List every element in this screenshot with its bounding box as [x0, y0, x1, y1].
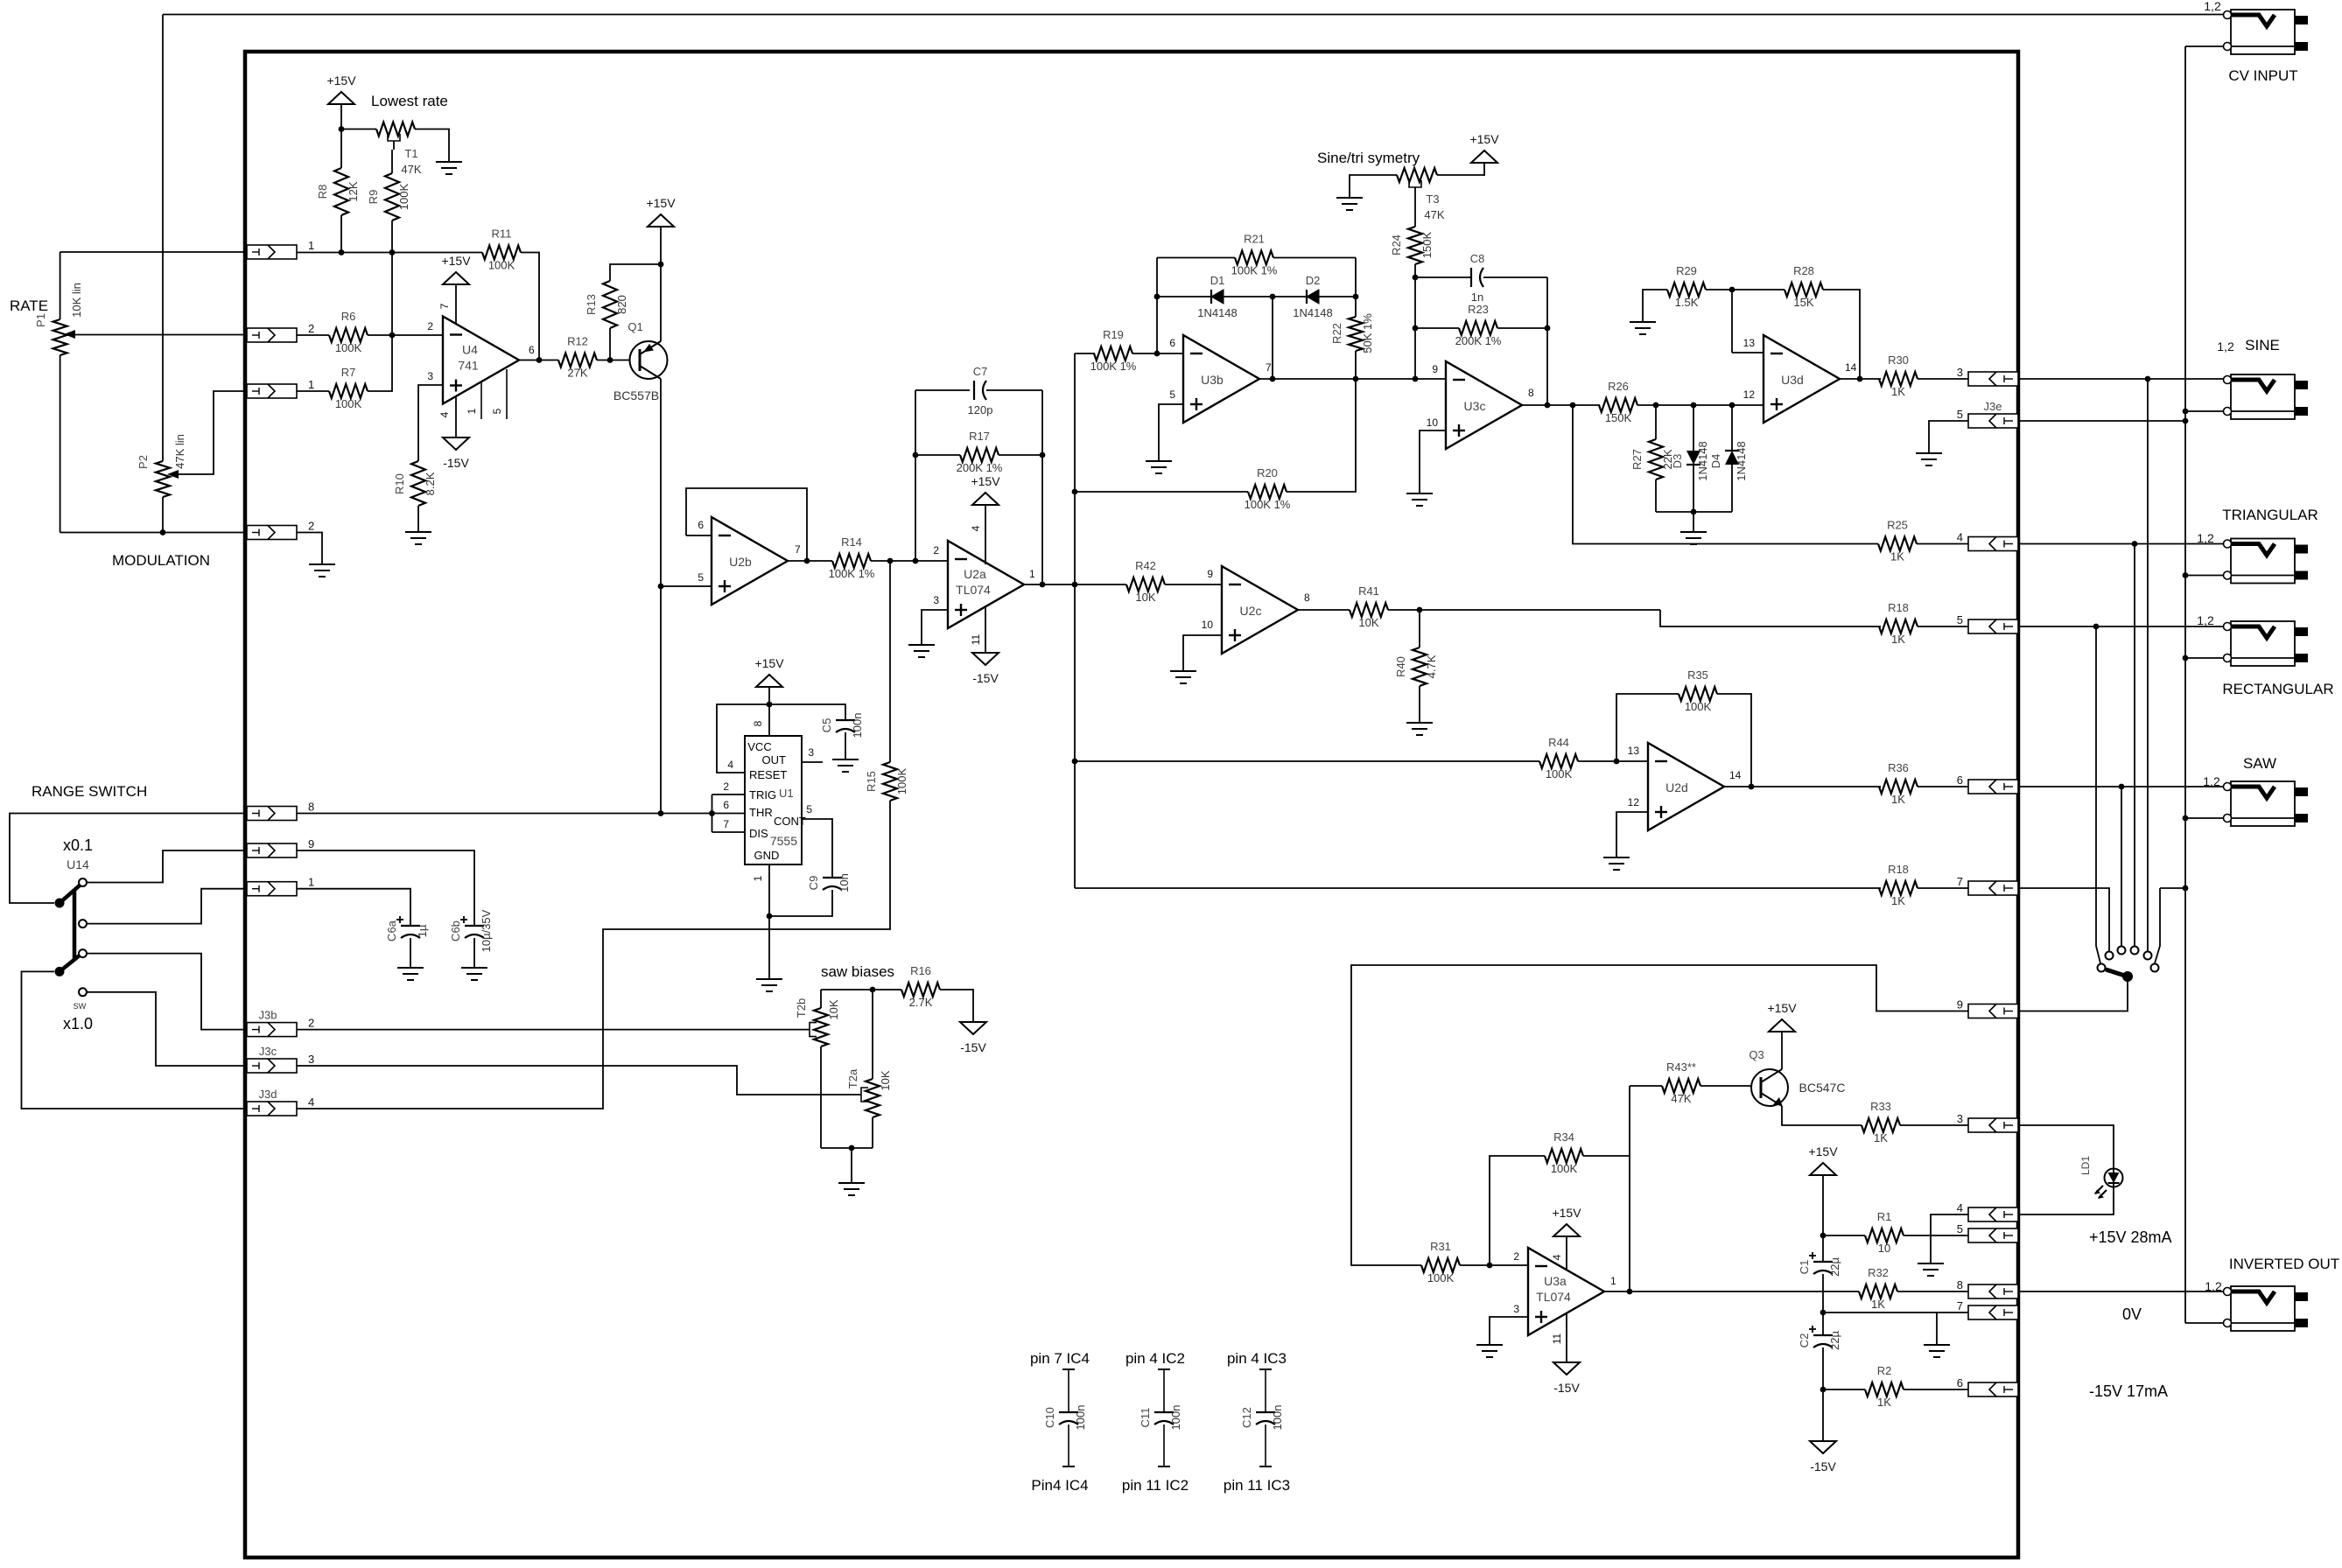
wire R33 to connector 3 [1900, 1124, 1968, 1126]
svg-text:sw: sw [74, 999, 87, 1011]
wire D3 top [1693, 405, 1694, 451]
svg-text:R32: R32 [1868, 1266, 1889, 1279]
junction R17 right [1040, 452, 1046, 458]
wire R17 left stub [915, 454, 960, 456]
wire R24 bottom rail [1414, 264, 1416, 379]
wire R35 right rail [1717, 694, 1751, 787]
wire connector1 row to R11 node [297, 252, 482, 254]
svg-text:100K 1%: 100K 1% [1090, 360, 1137, 373]
svg-text:14: 14 [1729, 769, 1742, 781]
junction T2a top [870, 987, 876, 993]
switch U14 pole2 contact 1 [79, 949, 87, 957]
capacitor C12 100n [1240, 1369, 1284, 1466]
wire U2b pin5 [661, 585, 712, 587]
wire sine out to jack tip [2018, 378, 2223, 380]
svg-text:7: 7 [1957, 1299, 1963, 1312]
wire P2 bottom to modulation rail [162, 497, 164, 533]
svg-text:4: 4 [970, 525, 982, 531]
ground at saw biases [838, 1183, 865, 1195]
ground at connector 4 [1918, 1263, 1944, 1276]
svg-text:10K: 10K [879, 1070, 892, 1090]
wire SINE sleeve [2185, 410, 2224, 412]
resistor R1 10 [1865, 1210, 1904, 1255]
svg-text:R21: R21 [1244, 233, 1265, 246]
wire U3b pin5 to ground [1159, 404, 1183, 461]
wire P1 wiper to connector 2 [74, 334, 247, 336]
svg-text:pin 4 IC2: pin 4 IC2 [1125, 1350, 1185, 1367]
svg-text:3: 3 [808, 746, 814, 759]
wire P1 bottom to modulation rail [60, 355, 61, 533]
junction R14/R15 node [887, 558, 894, 564]
wire U2a pin11 to -15V [985, 606, 986, 653]
wire R43 left [1630, 1085, 1662, 1087]
wire U2a output row [1024, 584, 1126, 585]
wire R16 right to -15V [940, 990, 973, 1022]
svg-text:R11: R11 [492, 227, 512, 241]
resistor R25 1K [1878, 519, 1917, 563]
wire VCC pin8 [768, 704, 770, 736]
junction R27 top [1653, 402, 1659, 409]
svg-text:CV INPUT: CV INPUT [2228, 67, 2297, 84]
T2a tap bracket [861, 1088, 868, 1102]
wire modulation connector to ground [297, 533, 322, 565]
op-amp U3d [1764, 335, 1840, 423]
wire Q1 collector rail down to THR [660, 379, 662, 814]
svg-text:2: 2 [308, 520, 314, 533]
wire D3 bottom [1693, 465, 1694, 512]
wire RECT sleeve [2185, 657, 2224, 659]
wire pin7 out to switch [2018, 888, 2109, 951]
svg-text:6: 6 [1169, 337, 1175, 349]
junction sine to switch [2145, 376, 2151, 382]
svg-text:9: 9 [308, 837, 314, 850]
svg-text:100n: 100n [1169, 1405, 1182, 1431]
svg-text:T2a: T2a [846, 1068, 859, 1088]
resistor R27 22K [1630, 439, 1674, 479]
junction R35 left rail on pin13 [1614, 759, 1620, 765]
wire R32 to connector 8 [1897, 1291, 1968, 1292]
wire R12 to Q1 base [597, 360, 630, 361]
wire +15V to T1/R8 node [340, 104, 342, 129]
junction R34 rail on pin2 [1487, 1263, 1493, 1269]
svg-text:4: 4 [1957, 1201, 1963, 1214]
svg-text:D4: D4 [1709, 454, 1722, 469]
junction D4 top [1729, 402, 1735, 409]
resistor R29 1.5K [1667, 264, 1706, 309]
svg-text:SINE: SINE [2245, 337, 2280, 353]
svg-text:4: 4 [1551, 1254, 1563, 1260]
svg-text:6: 6 [698, 519, 704, 531]
wire LED to connector4 [2018, 1186, 2114, 1214]
wire connector4 to ground [1931, 1214, 1968, 1263]
wire R34 right rail [1583, 1086, 1630, 1156]
connector J3b pin 2 [247, 1009, 314, 1037]
svg-text:U3d: U3d [1781, 373, 1804, 387]
wire J3b to pole2 contact1 [87, 954, 247, 1030]
svg-text:2: 2 [308, 322, 314, 335]
svg-text:R15: R15 [865, 771, 878, 792]
power arrow -15V (U4 pin4) [443, 437, 469, 470]
resistor R41 10K [1350, 584, 1388, 629]
junction +15V rail C1 [1820, 1233, 1827, 1239]
wire U3d output [1840, 378, 1881, 380]
svg-text:R9: R9 [367, 190, 380, 205]
connector pin 2 (rate pot wiper) [247, 322, 314, 342]
wire CV sleeve [2185, 45, 2224, 47]
svg-text:1µ: 1µ [416, 924, 429, 937]
diode D1 1N4148 [1197, 274, 1238, 319]
resistor R14 100K 1% [829, 535, 875, 580]
connector pin 3 (LED drive) [1957, 1112, 2018, 1132]
resistor R24 150K [1390, 227, 1434, 264]
wire R40 top [1419, 610, 1420, 647]
svg-text:+15V: +15V [326, 73, 356, 87]
resistor R28 15K [1785, 264, 1823, 309]
svg-text:2: 2 [427, 320, 433, 332]
power arrow +15V (R8/T1) [326, 73, 356, 104]
wire modulation bottom rail [60, 532, 247, 534]
svg-text:J3c: J3c [259, 1045, 277, 1058]
svg-text:BC547C: BC547C [1799, 1081, 1846, 1095]
wire inverted out to jack tip [2018, 1291, 2223, 1292]
connector pin 1 (modulation depth) [247, 378, 314, 398]
wire x1.0 contact drop [2155, 888, 2160, 963]
svg-text:12: 12 [1743, 388, 1756, 401]
wire GND pin1 down [768, 864, 770, 979]
svg-text:R22: R22 [1330, 323, 1343, 344]
wire C7 top right [986, 389, 1042, 391]
wire T1 right to ground [415, 129, 449, 163]
svg-text:+15V 28mA: +15V 28mA [2089, 1228, 2172, 1246]
svg-text:1: 1 [308, 876, 314, 889]
svg-text:Q3: Q3 [1749, 1048, 1764, 1061]
wire triangle rail to R18 pin7 [1075, 887, 1881, 889]
wire connector8 to pole1 common [10, 814, 247, 904]
svg-text:1K: 1K [1890, 550, 1904, 563]
junction rect to switch [2093, 624, 2100, 630]
wire R6 to summing rail [368, 334, 392, 336]
resistor R9 100K [367, 173, 410, 220]
svg-text:J3d: J3d [259, 1088, 277, 1101]
svg-text:+15V: +15V [646, 196, 676, 210]
wire R43 to Q3 base [1700, 1085, 1752, 1087]
resistor R33 1K [1862, 1100, 1900, 1144]
wire connector3 to R7 [297, 390, 329, 392]
wire Q3 collector to +15V [1781, 1032, 1783, 1069]
wire connector9 to pole1 contact1 [87, 850, 247, 883]
op-amp U3a TL074 [1528, 1248, 1604, 1335]
ground at U3b pin5 [1146, 461, 1172, 473]
svg-text:+15V: +15V [1767, 1001, 1797, 1015]
ground at C6a [397, 968, 424, 980]
junction R29/R28/pin13 [1729, 287, 1735, 293]
resistor R2 1K [1865, 1364, 1904, 1409]
connector pin 1 (rate CV input) [247, 239, 314, 259]
wire C7 right rail [1041, 390, 1043, 584]
jack CV INPUT [2224, 10, 2309, 54]
svg-text:U3a: U3a [1544, 1274, 1567, 1288]
svg-text:U2a: U2a [964, 567, 986, 581]
diode D2 1N4148 [1293, 274, 1333, 319]
connector pin 2 (modulation return) [247, 520, 314, 540]
op-amp U2a TL074 [948, 541, 1024, 628]
svg-text:100K: 100K [895, 767, 908, 794]
wire T1 tap to R9 [393, 141, 395, 150]
wire U4 pin3 to R10 [418, 385, 443, 461]
wire R21 left [1157, 257, 1235, 259]
svg-text:pin 7 IC4: pin 7 IC4 [1030, 1350, 1090, 1367]
svg-text:SAW: SAW [2243, 755, 2276, 772]
svg-text:TL074: TL074 [956, 583, 991, 597]
svg-text:RECTANGULAR: RECTANGULAR [2222, 681, 2333, 697]
svg-text:OUT: OUT [762, 753, 787, 766]
svg-text:1K: 1K [1874, 1131, 1888, 1144]
svg-text:1,2: 1,2 [2197, 613, 2214, 627]
trimmer T2a 10K [846, 1068, 892, 1117]
svg-text:100K 1%: 100K 1% [829, 567, 875, 580]
svg-text:R25: R25 [1887, 519, 1908, 532]
svg-text:J3e: J3e [1984, 400, 2002, 413]
junction R35 on U2d output [1749, 784, 1755, 790]
svg-text:1: 1 [752, 875, 764, 881]
svg-text:+15V: +15V [1808, 1144, 1838, 1158]
svg-text:GND: GND [754, 849, 780, 862]
svg-text:C2: C2 [1798, 1333, 1811, 1348]
svg-text:R44: R44 [1548, 736, 1569, 749]
wire R18 to connector 5 [1918, 626, 1968, 627]
svg-text:C6b: C6b [449, 920, 462, 941]
wire R2 left [1823, 1389, 1865, 1390]
svg-text:R13: R13 [585, 294, 598, 315]
resistor R20 100K 1% [1245, 466, 1291, 511]
resistor R7 100K [329, 366, 368, 410]
svg-text:+15V: +15V [754, 656, 784, 670]
svg-text:P2: P2 [137, 455, 150, 469]
svg-text:741: 741 [458, 359, 479, 373]
svg-text:6: 6 [1957, 1376, 1963, 1389]
wire R26 to U3d pin12 [1637, 404, 1764, 406]
ground at R29 [1630, 322, 1656, 334]
svg-text:pin 11 IC2: pin 11 IC2 [1122, 1477, 1189, 1494]
svg-text:R10: R10 [393, 473, 406, 494]
svg-text:100K 1%: 100K 1% [1231, 264, 1278, 277]
wire R27 top [1655, 405, 1657, 439]
capacitor C11 100n [1139, 1369, 1182, 1466]
svg-text:100n: 100n [1074, 1405, 1087, 1431]
resistor R30 1K [1879, 353, 1918, 398]
trimmer T3 47K [1397, 168, 1437, 182]
power arrow +15V (U4 pin7) [441, 254, 471, 284]
junction R23 left [1413, 325, 1419, 332]
resistor R35 100K (U2d feedback) [1679, 668, 1717, 713]
wire R23 right stub [1497, 327, 1547, 329]
svg-text:1K: 1K [1891, 633, 1905, 646]
wire R25 to connector 4 [1917, 543, 1968, 545]
power arrow +15V (U3a pin4) [1552, 1206, 1581, 1236]
wire SAW sleeve [2185, 817, 2224, 819]
svg-text:-15V: -15V [1810, 1459, 1836, 1473]
resistor R44 100K [1539, 736, 1578, 780]
svg-text:1: 1 [1029, 568, 1035, 580]
svg-text:-15V: -15V [972, 671, 999, 685]
svg-text:R29: R29 [1676, 264, 1697, 277]
svg-text:10K: 10K [1135, 591, 1155, 604]
svg-text:47K: 47K [401, 163, 421, 176]
switch U14 pole1 common [55, 899, 65, 908]
wire R28 right to output [1823, 290, 1860, 379]
wire C9 to GND row [769, 890, 832, 916]
wire R10 to ground [417, 506, 419, 532]
svg-text:R34: R34 [1553, 1130, 1574, 1144]
wire R15 top from R14 node [889, 561, 891, 762]
wire D2 right [1319, 296, 1356, 297]
wire RESET branch [717, 704, 769, 773]
wire clamp to ground [1693, 512, 1694, 532]
svg-text:+15V: +15V [971, 474, 1000, 488]
wire R36 to connector 6 [1918, 786, 1968, 787]
wire rect switch drop [2096, 626, 2100, 963]
wire R9 bottom to input node [391, 220, 393, 253]
wire C2 bottom [1822, 1347, 1824, 1389]
wire U3b out row to U3c pin9 [1356, 378, 1446, 380]
capacitor C10 100n [1043, 1369, 1087, 1466]
wire D4 top [1731, 405, 1733, 451]
junction D1/R21 rail on pin6 [1154, 351, 1160, 357]
junction tri to switch [2132, 541, 2138, 547]
svg-text:R7: R7 [341, 366, 356, 379]
junction U2b feedback on output [804, 558, 810, 564]
junction R8 on input node [339, 249, 345, 255]
svg-text:100K: 100K [1551, 1162, 1578, 1175]
junction summing node at pin2 row [389, 332, 396, 339]
svg-text:27K: 27K [567, 367, 587, 380]
wire U3b output [1259, 378, 1356, 380]
op-amp U3b [1183, 335, 1259, 423]
op-amp U2c [1222, 566, 1298, 654]
switch U14 pole2 common [55, 967, 65, 976]
junction D1 left rail [1154, 294, 1160, 300]
main schematic border box [245, 52, 2018, 1557]
svg-text:7: 7 [1957, 875, 1963, 888]
wire R28 left [1732, 289, 1785, 290]
svg-text:R30: R30 [1888, 353, 1909, 367]
svg-text:R28: R28 [1793, 264, 1814, 277]
svg-text:11: 11 [970, 633, 982, 645]
capacitor C5 100n [820, 713, 864, 738]
junction R24 rail on pin9 [1413, 376, 1419, 382]
ground at U2c pin10 [1170, 671, 1196, 683]
svg-text:R31: R31 [1430, 1240, 1451, 1253]
wire C5 to ground [845, 732, 846, 759]
ground at C6b [461, 968, 487, 980]
svg-text:BC557B: BC557B [614, 388, 659, 402]
svg-text:Lowest rate: Lowest rate [371, 93, 448, 109]
jack RECTANGULAR [2224, 621, 2309, 666]
resistor R13 820 [585, 281, 628, 328]
svg-text:10K: 10K [827, 999, 840, 1019]
svg-text:x0.1: x0.1 [63, 836, 93, 854]
svg-text:5: 5 [698, 571, 704, 584]
wire R8 top [340, 129, 342, 169]
wire R35 left rail [1616, 694, 1679, 761]
junction Q1 rail on THR row [658, 810, 664, 816]
svg-text:D1: D1 [1210, 274, 1225, 287]
wire Q3 emitter to R33 row [1782, 1106, 1862, 1125]
svg-text:R19: R19 [1103, 328, 1124, 341]
svg-text:6: 6 [529, 344, 535, 356]
svg-text:T3: T3 [1426, 192, 1439, 206]
power arrow +15V (Q3) [1767, 1001, 1797, 1032]
power arrow +15V (Q1) [646, 196, 676, 227]
junction SAW sleeve on rail [2183, 815, 2189, 822]
resistor R6 100K [329, 310, 368, 354]
wire R34 left rail [1490, 1156, 1545, 1265]
svg-text:1K: 1K [1871, 1298, 1885, 1311]
wire DIS pin7 [712, 831, 746, 833]
wire J3b row to T2b tap [297, 1029, 810, 1031]
connector pin 6 (-15V) [1957, 1376, 2018, 1396]
svg-text:1: 1 [308, 239, 314, 252]
junction saw to switch [2119, 784, 2125, 790]
junction VCC/C5/RESET [767, 702, 773, 708]
svg-text:50K 1%: 50K 1% [1361, 313, 1374, 353]
resistor R23 200K 1% [1455, 303, 1502, 347]
svg-text:T2b: T2b [795, 998, 808, 1018]
wire T2a top [872, 990, 873, 1079]
wire +15V to Q1 emitter [660, 227, 662, 264]
wire 0V to ground [1936, 1312, 1938, 1345]
op-amp U3c [1446, 361, 1522, 449]
svg-text:LD1: LD1 [2079, 1156, 2092, 1175]
resistor R22 50K 1% [1330, 313, 1374, 353]
wire U2b pin6 stub [686, 535, 712, 536]
svg-text:5: 5 [1169, 388, 1175, 401]
wire C6a to ground [410, 938, 411, 968]
svg-text:5: 5 [491, 408, 503, 414]
wire sleeve ground rail [2184, 46, 2186, 1323]
svg-text:MODULATION: MODULATION [112, 552, 210, 569]
svg-text:7: 7 [795, 543, 801, 556]
wire INV sleeve [2185, 1322, 2224, 1324]
svg-text:10: 10 [1202, 619, 1214, 631]
capacitor C2 22u [1798, 1326, 1841, 1350]
wire U2a pin4 to +15V [985, 505, 986, 564]
wire T3 left to ground [1350, 175, 1397, 198]
junction R13 +15V rail [658, 262, 664, 268]
wire J3e to sleeve rail [2018, 420, 2185, 422]
wire connector1 to pole1 contact2 [87, 889, 247, 924]
diode D4 1N4148 [1709, 441, 1748, 481]
svg-text:5: 5 [1957, 1222, 1963, 1235]
wire TRI sleeve [2185, 575, 2224, 577]
svg-text:9: 9 [1957, 998, 1963, 1011]
svg-text:47K: 47K [1671, 1092, 1691, 1105]
T2b tap bracket [810, 1023, 817, 1037]
svg-text:1K: 1K [1891, 793, 1905, 806]
svg-text:12K: 12K [347, 181, 360, 201]
wire C7 top left [915, 389, 970, 391]
wire T1 tap to R9 top [391, 150, 393, 173]
svg-text:R8: R8 [316, 185, 329, 199]
wire Q1 emitter up [660, 264, 662, 341]
trimmer T1 47K (Lowest rate) [376, 122, 415, 136]
wire TRIG pin2 [712, 794, 746, 795]
svg-text:100K: 100K [1546, 767, 1573, 780]
LED LD1 [2079, 1156, 2123, 1199]
ground at R10 [405, 532, 431, 544]
wire U4 pin7 to +15V [455, 284, 457, 323]
rotary switch pivot [2122, 971, 2133, 982]
